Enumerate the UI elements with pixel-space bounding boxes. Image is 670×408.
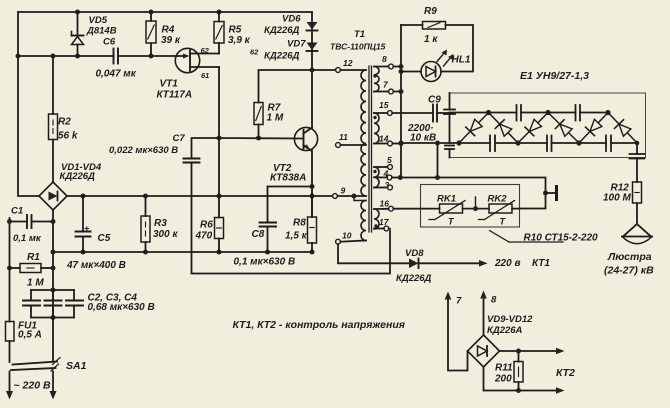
wire C8 jumper to VT2 emitter <box>268 186 313 188</box>
terminal KT1 high <box>546 187 557 200</box>
svg-text:С5: С5 <box>98 233 111 244</box>
svg-text:0,68 мк×630 В: 0,68 мк×630 В <box>88 302 155 313</box>
node junctions y56 <box>51 54 154 59</box>
diode E1 D6 <box>608 113 637 144</box>
resistor R11 <box>514 351 523 391</box>
resistor R12 <box>633 182 642 224</box>
svg-text:VD9-VD12: VD9-VD12 <box>487 314 533 325</box>
node x9.5 junctions <box>7 219 12 271</box>
svg-text:R5: R5 <box>229 25 242 36</box>
winding T1 secondary 5-4-3 <box>374 167 379 187</box>
wire T-drop from lower rail <box>437 143 439 178</box>
svg-text:3,9 к: 3,9 к <box>228 35 251 46</box>
capacitor block C2 C3 C4 <box>23 290 83 318</box>
capacitor C7 <box>184 138 220 163</box>
svg-text:R6: R6 <box>200 220 213 231</box>
svg-text:39 к: 39 к <box>161 35 181 46</box>
bridge rectifier VD1-VD4 <box>39 182 67 210</box>
svg-text:КТ1: КТ1 <box>532 258 550 269</box>
pin 15 <box>374 112 387 114</box>
svg-text:10 кВ: 10 кВ <box>410 133 436 144</box>
capacitor C1 <box>10 215 54 228</box>
capacitor C8 <box>260 187 277 253</box>
wire top rail <box>18 11 312 13</box>
node y196 junctions <box>81 194 315 199</box>
svg-text:КД226Д: КД226Д <box>264 51 300 62</box>
node top rail junctions <box>75 10 222 15</box>
diode E1 D4 <box>548 113 579 144</box>
pin 16 <box>374 208 389 210</box>
svg-text:С8: С8 <box>252 229 265 240</box>
svg-text:R9: R9 <box>424 6 437 17</box>
thermistor RK1 <box>429 201 465 220</box>
pin 7 <box>374 91 389 93</box>
electrode chandelier <box>622 224 652 244</box>
wire pin16 to RK chain <box>393 208 439 210</box>
wire pin10 to VD8 <box>338 244 409 263</box>
resistor R6 <box>215 196 224 252</box>
winding T1 secondary 8-7 <box>374 67 379 92</box>
svg-text:КД226Д: КД226Д <box>264 25 300 36</box>
svg-text:С6: С6 <box>103 37 116 48</box>
svg-text:RK2: RK2 <box>488 194 508 205</box>
wire bridge bottom vertical x53 <box>52 210 54 361</box>
svg-text:100 М: 100 М <box>603 193 631 204</box>
wire main mid horizontal y196 <box>67 195 332 197</box>
svg-text:VD5: VD5 <box>89 15 108 26</box>
svg-text:VD7: VD7 <box>287 39 306 50</box>
capacitor C5 electrolytic <box>76 196 91 252</box>
node arrow KT2 bottom <box>556 387 565 394</box>
capacitor E1 lower rail 3 <box>606 136 611 152</box>
svg-text:С7: С7 <box>173 133 186 144</box>
resistor R7 <box>254 70 312 138</box>
node R11 top junction <box>516 349 521 354</box>
svg-text:КД226Д: КД226Д <box>60 171 96 182</box>
pin 14 <box>374 143 388 145</box>
transistor VT2 <box>294 127 317 150</box>
node jumper junction <box>310 184 315 189</box>
svg-text:R4: R4 <box>162 25 175 36</box>
box RK thermistors <box>421 185 520 228</box>
wire left mains 2 vertical x9.5 <box>9 218 11 322</box>
svg-text:12: 12 <box>343 58 353 68</box>
svg-text:1,5 к: 1,5 к <box>285 231 308 242</box>
resistor R4 <box>146 12 156 56</box>
svg-text:ТВС-110ПЦ15: ТВС-110ПЦ15 <box>330 42 386 52</box>
capacitor E1 upper rail 2 <box>576 105 581 121</box>
diode VD8 <box>409 259 480 269</box>
svg-text:200: 200 <box>494 374 512 385</box>
svg-text:Е1 УН9/27-1,3: Е1 УН9/27-1,3 <box>520 70 589 82</box>
wire C9 to multiplier <box>437 112 450 114</box>
svg-text:R3: R3 <box>154 218 167 229</box>
node arrow 220V KT1 <box>479 260 488 267</box>
svg-text:R1: R1 <box>27 252 40 263</box>
node y252 junctions <box>81 250 315 255</box>
svg-text:8: 8 <box>491 295 497 306</box>
wire pin4 node to RK and terminal <box>400 178 545 209</box>
pin 5 <box>374 166 388 168</box>
svg-text:0,1 мк: 0,1 мк <box>13 233 42 244</box>
svg-text:+: + <box>84 224 90 234</box>
svg-text:С9: С9 <box>428 95 441 106</box>
wire arrow pin8 up <box>480 291 487 336</box>
wire R10 pointer <box>490 231 564 243</box>
svg-text:11: 11 <box>339 132 348 142</box>
node R11 bottom junction <box>516 388 521 393</box>
svg-text:62: 62 <box>250 48 259 57</box>
svg-text:~ 220 В: ~ 220 В <box>14 380 51 392</box>
node x312 junction y70 <box>310 68 315 73</box>
wire arrow pin7 up <box>445 292 468 371</box>
wire left mains vertical <box>18 12 39 196</box>
svg-text:R10 СТ15-2-220: R10 СТ15-2-220 <box>524 233 599 244</box>
svg-text:56 k: 56 k <box>58 131 78 142</box>
capacitor E1 upper rail 1 <box>517 105 522 121</box>
bridge rectifier VD9-VD12 <box>468 335 500 367</box>
pin 12 <box>312 69 336 71</box>
svg-text:SA1: SA1 <box>66 360 87 372</box>
svg-text:RK1: RK1 <box>437 194 456 205</box>
node RK center tap <box>475 197 477 209</box>
capacitor C6 <box>114 49 119 64</box>
LED HL1 <box>401 50 454 82</box>
svg-text:0,022 мк×630 В: 0,022 мк×630 В <box>109 145 178 156</box>
svg-text:10: 10 <box>342 231 352 241</box>
pin 10 <box>340 241 366 242</box>
node polarity dot w2 <box>373 116 376 119</box>
svg-text:КД226Д: КД226Д <box>396 273 432 284</box>
wire mains output arrows <box>9 372 11 393</box>
svg-text:0,5 А: 0,5 А <box>18 330 42 341</box>
capacitor E1 lower rail 1 <box>490 136 495 152</box>
node y177 junctions <box>435 175 548 196</box>
transistor VT1 unijunction <box>175 48 219 72</box>
node polarity dot w1 <box>373 74 376 77</box>
wire bridge2 output bottom <box>484 367 558 391</box>
resistor R3 <box>141 196 150 252</box>
svg-text:16: 16 <box>380 199 390 209</box>
pin 9 <box>333 194 338 199</box>
diode E1 D2 <box>489 113 519 144</box>
wire C7 return line to pin17 <box>192 163 391 274</box>
resistor R9 <box>401 22 473 72</box>
node arrow heads 220V <box>6 391 57 400</box>
wire VT1 b1 vertical <box>218 67 220 196</box>
svg-text:КД226А: КД226А <box>487 325 523 336</box>
svg-text:С1: С1 <box>11 206 23 217</box>
diode E1 D3 <box>518 113 548 144</box>
diode VD6 <box>307 22 318 31</box>
svg-text:47 мк×400 В: 47 мк×400 В <box>66 260 126 271</box>
resistor R1 <box>10 264 54 273</box>
wire VD6-VD7-collector vertical x312 <box>311 12 313 128</box>
pin 17 <box>374 228 384 230</box>
svg-text:Люстра: Люстра <box>607 251 652 263</box>
pin 8 <box>374 66 389 68</box>
node E1 rail junctions <box>399 110 640 146</box>
svg-text:Т1: Т1 <box>354 29 365 40</box>
svg-text:9: 9 <box>341 186 346 196</box>
svg-text:220 в: 220 в <box>494 258 521 269</box>
winding T1 primary lower (9-10) <box>361 201 366 241</box>
svg-text:3: 3 <box>385 180 390 190</box>
svg-text:1 М: 1 М <box>27 278 44 289</box>
transformer T1 core <box>369 66 372 232</box>
svg-text:VD8: VD8 <box>405 248 424 259</box>
node polarity dot w4 <box>374 224 377 227</box>
switch SA1 <box>11 358 60 372</box>
pin 3 <box>374 187 388 189</box>
node arrow KT2 top <box>556 348 565 355</box>
svg-text:7: 7 <box>456 296 462 307</box>
pin 11 <box>336 143 341 148</box>
node b1 junctions <box>217 136 222 199</box>
node R7 bottom junction <box>256 136 261 141</box>
svg-text:0,047 мк: 0,047 мк <box>96 69 137 80</box>
wire E1 lower rail <box>401 142 490 144</box>
svg-text:(24-27) кВ: (24-27) кВ <box>604 265 654 277</box>
wire y56 horizontal <box>18 55 114 57</box>
diode E1 D5 <box>579 113 608 144</box>
svg-text:КТ1, КТ2 - контроль напряжения: КТ1, КТ2 - контроль напряжения <box>233 319 405 331</box>
svg-text:0,1 мк×630 В: 0,1 мк×630 В <box>234 257 296 268</box>
capacitor E1 input column lower <box>445 146 454 158</box>
resistor R5 <box>214 12 224 54</box>
svg-text:VT1: VT1 <box>160 79 179 90</box>
diode VD7 <box>307 43 318 52</box>
node polarity dot w3 <box>373 170 376 173</box>
wire bridge2 output top <box>500 350 558 352</box>
zener VD5 <box>72 12 84 56</box>
wire VT2 base <box>219 137 302 140</box>
block E1 outline <box>450 93 646 158</box>
svg-text:КТ838А: КТ838А <box>270 173 306 184</box>
svg-text:300 к: 300 к <box>153 229 178 240</box>
capacitor E1 output <box>630 143 645 182</box>
node x53 junctions <box>51 219 56 320</box>
wire bus x401 <box>400 25 402 178</box>
wire E1 upper rail <box>450 112 517 114</box>
svg-text:62: 62 <box>201 46 210 55</box>
fuse FU1 <box>6 322 15 363</box>
pin 4 <box>374 176 387 178</box>
capacitor E1 input column upper <box>444 93 455 143</box>
thermistor RK2 <box>479 201 515 220</box>
node bus junctions <box>398 64 404 180</box>
capacitor C9 <box>433 105 437 122</box>
svg-text:КТ2: КТ2 <box>556 367 575 379</box>
svg-text:1 М: 1 М <box>267 113 284 124</box>
svg-text:470: 470 <box>195 231 213 242</box>
svg-text:R2: R2 <box>58 117 71 128</box>
svg-text:4: 4 <box>383 169 389 179</box>
winding T1 primary upper (12-11-9) <box>361 70 366 196</box>
resistor R2 <box>49 56 58 182</box>
svg-text:HL1: HL1 <box>452 55 471 66</box>
svg-text:17: 17 <box>379 217 390 227</box>
winding T1 secondary 15-14 <box>374 113 379 144</box>
node junction x18 y56 <box>16 54 21 59</box>
resistor R8 <box>308 196 317 252</box>
svg-text:КТ117А: КТ117А <box>157 90 193 101</box>
svg-text:14: 14 <box>379 134 389 144</box>
svg-text:VD6: VD6 <box>282 14 301 25</box>
wire pin15 to C9 <box>392 112 433 114</box>
svg-text:15: 15 <box>379 100 389 110</box>
capacitor E1 lower rail 2 <box>547 136 552 152</box>
svg-text:5: 5 <box>387 155 392 165</box>
wire bottom rail y252 <box>53 251 312 253</box>
wire RK1-RK2 link <box>463 208 490 210</box>
wire RK2 to corner <box>512 208 520 210</box>
svg-text:8: 8 <box>382 54 387 64</box>
svg-text:R8: R8 <box>293 218 306 229</box>
diode E1 D1 <box>459 113 489 144</box>
svg-text:61: 61 <box>201 71 209 80</box>
svg-text:R11: R11 <box>495 363 513 374</box>
winding T1 secondary 16-17 <box>374 209 379 229</box>
svg-text:1 к: 1 к <box>424 34 438 45</box>
svg-text:Д814В: Д814В <box>86 26 117 37</box>
